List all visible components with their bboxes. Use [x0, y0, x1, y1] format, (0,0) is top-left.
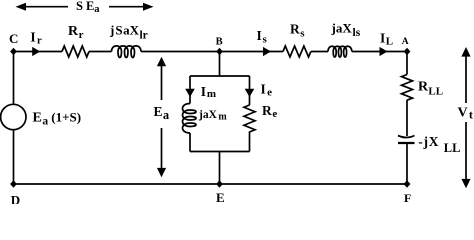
voltage arrow Ea (lower segment with down arrowhead)	[157, 128, 166, 177]
voltage arrow Vt (upper segment with up arrowhead)	[461, 47, 470, 103]
node B (junction dot)	[216, 48, 223, 55]
node E (junction dot)	[216, 180, 223, 187]
resistor Rs	[283, 46, 311, 57]
wire: RLL down to capacitor	[406, 100, 408, 136]
node F (junction dot)	[404, 180, 411, 187]
wire: top rail inductor to node B	[141, 51, 220, 53]
wire: bottom rail D to E	[14, 183, 220, 185]
voltage arrow Ea (upper segment with up arrowhead)	[157, 57, 166, 100]
wire: top rail inductor jaXls to node A	[352, 51, 407, 53]
svg-text:D: D	[11, 193, 20, 205]
wire: capacitor down to node F	[406, 144, 408, 184]
wire: top rail node B to resistor Rs	[220, 51, 284, 53]
wire: source down to node D	[13, 130, 15, 184]
voltage span arrow S Ea (right segment)	[109, 3, 154, 11]
wire: box top rail	[190, 75, 250, 77]
inductor jaXls	[328, 46, 352, 57]
resistor Re	[244, 105, 255, 132]
current arrow Ie (down arrowhead)	[245, 89, 255, 97]
wire: node B down to magnetizing box	[219, 52, 221, 77]
resistor Rr	[62, 46, 89, 57]
svg-text:A: A	[402, 37, 409, 47]
current arrow Ir (arrowhead on top rail)	[32, 47, 40, 56]
voltage span arrow S Ea (left segment)	[16, 3, 69, 11]
wire: box left branch lower	[189, 133, 191, 152]
svg-text:C: C	[9, 31, 18, 46]
svg-text:B: B	[216, 37, 223, 48]
current arrow Im (down arrowhead)	[185, 89, 195, 97]
wire: box bottom down to node E	[219, 152, 221, 185]
capacitor -jXLL (bottom plate)	[398, 142, 415, 144]
current arrow Is (arrowhead on top rail)	[263, 47, 271, 56]
voltage arrow Vt (lower segment with down arrowhead)	[461, 122, 470, 188]
node C (junction dot)	[10, 48, 17, 55]
wire: box right branch upper	[249, 76, 251, 105]
wire: top rail Rs to inductor jaXls	[311, 51, 328, 53]
capacitor -jXLL (top curved plate)	[398, 136, 415, 138]
node A (junction dot)	[404, 48, 411, 55]
inductor jSaXlr	[112, 46, 142, 58]
wire: top rail Rr to inductor	[89, 51, 112, 53]
wire: box right branch lower	[249, 132, 251, 152]
wire: top rail C to resistor Rr	[14, 51, 63, 53]
svg-text:jaXm: jaXm	[198, 109, 227, 123]
wire: bottom rail E to F	[220, 183, 408, 185]
current arrow IL (arrowhead on top rail)	[380, 47, 388, 56]
svg-text:E: E	[216, 190, 225, 204]
wire: box bottom rail	[190, 151, 250, 153]
wire: node A down to resistor RLL	[406, 52, 408, 75]
wire: left rail C down to source	[13, 52, 15, 106]
inductor jaXm	[183, 104, 197, 134]
resistor RLL	[402, 75, 413, 101]
wire: box left branch upper	[189, 76, 191, 104]
svg-text:Vt: Vt	[458, 106, 473, 122]
source E_a(1+S) (circle symbol)	[1, 104, 26, 129]
svg-text:F: F	[404, 191, 411, 204]
node D (junction dot)	[10, 180, 17, 187]
